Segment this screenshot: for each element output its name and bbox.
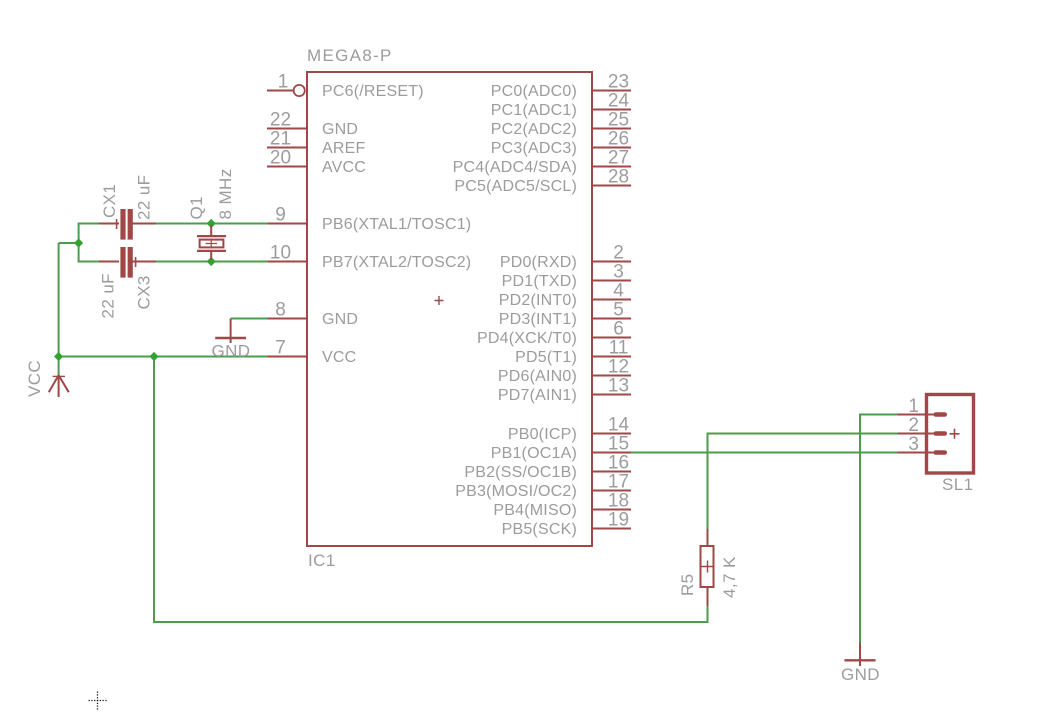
wire XTAL2 junction down <box>78 243 80 263</box>
svg-text:20: 20 <box>270 148 291 169</box>
svg-text:1: 1 <box>908 396 919 417</box>
frame origin marker <box>89 692 108 711</box>
svg-text:CX1: CX1 <box>100 184 119 218</box>
SL1 polarity mark + <box>950 429 960 439</box>
pin 1 PC6(/RESET) <box>267 72 424 101</box>
pin 22 GND <box>267 110 358 139</box>
svg-text:8: 8 <box>275 300 286 321</box>
svg-text:22 uF: 22 uF <box>135 175 154 220</box>
junction VCC rail drop <box>149 352 158 361</box>
svg-text:2: 2 <box>908 415 919 436</box>
pin 16 PB2(SS/OC1B) <box>464 453 631 482</box>
pin 13 PD7(AIN1) <box>498 376 631 405</box>
power VCC symbol <box>25 360 69 397</box>
wire left rail down <box>58 243 60 357</box>
svg-text:1: 1 <box>278 72 289 93</box>
svg-text:GND: GND <box>841 665 880 684</box>
junction VCC left <box>54 352 63 361</box>
wire XTAL2 left of CX3 <box>79 261 100 263</box>
svg-text:PB6(XTAL1/TOSC1): PB6(XTAL1/TOSC1) <box>322 216 471 233</box>
svg-text:13: 13 <box>608 376 629 397</box>
svg-text:PC4(ADC4/SDA): PC4(ADC4/SDA) <box>453 159 577 176</box>
pin 8 GND <box>267 300 358 329</box>
connector SL1 <box>927 395 974 495</box>
svg-text:PD2(INT0): PD2(INT0) <box>499 292 577 309</box>
pin 2 PD0(RXD) <box>500 243 631 272</box>
svg-text:AREF: AREF <box>322 140 365 157</box>
svg-text:VCC: VCC <box>322 349 356 366</box>
svg-text:8 MHz: 8 MHz <box>216 168 235 219</box>
svg-text:3: 3 <box>613 262 624 283</box>
ground GND (SL1) <box>841 643 880 684</box>
wire R5 to SL1 pin2 <box>707 433 898 435</box>
wire pin8 to GND symbol <box>231 318 268 320</box>
svg-text:PD0(RXD): PD0(RXD) <box>500 254 577 271</box>
svg-text:GND: GND <box>322 121 358 138</box>
svg-text:15: 15 <box>608 434 629 455</box>
svg-text:MEGA8-P: MEGA8-P <box>307 46 393 65</box>
pin 6 PD4(XCK/T0) <box>477 319 631 348</box>
svg-text:4,7 K: 4,7 K <box>720 556 739 598</box>
wire XTAL2 cap to pin10 <box>156 261 268 263</box>
pin 11 PD5(T1) <box>515 338 631 367</box>
svg-text:23: 23 <box>608 72 629 93</box>
resistor R5 4,7 K <box>678 529 739 606</box>
svg-text:PD1(TXD): PD1(TXD) <box>502 273 577 290</box>
svg-text:9: 9 <box>275 205 286 226</box>
svg-text:PC3(ADC3): PC3(ADC3) <box>491 140 577 157</box>
wire XTAL1 left of CX1 <box>79 223 100 225</box>
pin 25 PC2(ADC2) <box>491 110 631 139</box>
svg-text:PC5(ADC5/SCL): PC5(ADC5/SCL) <box>454 178 577 195</box>
junction left cap rail <box>74 238 83 247</box>
wire bottom rail <box>154 621 708 623</box>
SL1 pin 2 <box>898 415 948 436</box>
svg-text:PB5(SCK): PB5(SCK) <box>502 521 577 538</box>
pin 12 PD6(AIN0) <box>498 357 631 386</box>
pin 28 PC5(ADC5/SCL) <box>454 167 631 196</box>
pin 27 PC4(ADC4/SDA) <box>453 148 631 177</box>
wire XTAL1 down to junction <box>78 223 80 244</box>
svg-text:25: 25 <box>608 110 629 131</box>
pin 10 PB7(XTAL2/TOSC2) <box>267 243 471 272</box>
svg-text:VCC: VCC <box>25 360 44 397</box>
pin 7 VCC <box>267 338 356 367</box>
svg-text:PB4(MISO): PB4(MISO) <box>493 502 577 519</box>
svg-text:PB3(MOSI/OC2): PB3(MOSI/OC2) <box>455 483 577 500</box>
svg-text:6: 6 <box>613 319 624 340</box>
pin 19 PB5(SCK) <box>502 510 631 539</box>
pin 21 AREF <box>267 129 365 158</box>
wire junction to left rail <box>59 242 79 244</box>
SL1 pin 1 <box>898 396 948 417</box>
svg-text:PC1(ADC1): PC1(ADC1) <box>491 102 577 119</box>
svg-text:PD3(INT1): PD3(INT1) <box>499 311 577 328</box>
IC IC1 MEGA8-P body <box>307 46 592 570</box>
svg-text:PB2(SS/OC1B): PB2(SS/OC1B) <box>464 464 577 481</box>
svg-text:26: 26 <box>608 129 629 150</box>
pin 20 AVCC <box>267 148 366 177</box>
wire SL1 pin1 <box>860 414 898 416</box>
svg-text:PC0(ADC0): PC0(ADC0) <box>491 83 577 100</box>
pin 24 PC1(ADC1) <box>491 91 631 120</box>
pin 3 PD1(TXD) <box>502 262 631 291</box>
svg-text:AVCC: AVCC <box>322 159 366 176</box>
svg-text:GND: GND <box>322 311 358 328</box>
svg-text:7: 7 <box>275 338 286 359</box>
junction Q1 bottom <box>207 257 216 266</box>
pin 23 PC0(ADC0) <box>491 72 631 101</box>
svg-text:3: 3 <box>908 434 919 455</box>
svg-text:Q1: Q1 <box>187 196 206 219</box>
svg-text:10: 10 <box>270 243 291 264</box>
svg-text:24: 24 <box>608 91 630 112</box>
wire R5 bottom <box>707 605 709 623</box>
SL1 pin 3 <box>898 434 948 455</box>
svg-text:27: 27 <box>608 148 629 169</box>
svg-text:22 uF: 22 uF <box>99 273 118 318</box>
svg-text:22: 22 <box>270 110 291 131</box>
pin 18 PB4(MISO) <box>493 491 631 520</box>
ground GND (pin 8) <box>212 319 251 361</box>
wire R5 top up <box>707 434 709 530</box>
capacitor CX3 <box>99 247 157 319</box>
wire VCC rail drop <box>153 357 155 624</box>
pin 5 PD3(INT1) <box>499 300 631 329</box>
svg-text:R5: R5 <box>678 573 697 596</box>
svg-text:5: 5 <box>613 300 624 321</box>
wire XTAL1 cap to pin9 <box>156 223 268 225</box>
svg-text:CX3: CX3 <box>135 275 154 309</box>
pin 15 PB1(OC1A) <box>491 434 631 463</box>
svg-text:4: 4 <box>613 281 624 302</box>
svg-text:PB7(XTAL2/TOSC2): PB7(XTAL2/TOSC2) <box>322 254 471 271</box>
wire VCC stub down <box>58 357 60 376</box>
svg-text:PC6(/RESET): PC6(/RESET) <box>322 83 424 100</box>
svg-text:18: 18 <box>608 491 629 512</box>
svg-text:PD4(XCK/T0): PD4(XCK/T0) <box>477 330 577 347</box>
svg-text:21: 21 <box>270 129 291 150</box>
svg-text:19: 19 <box>608 510 629 531</box>
svg-text:PB0(ICP): PB0(ICP) <box>508 426 577 443</box>
svg-text:16: 16 <box>608 453 629 474</box>
crystal Q1 8 MHz <box>187 168 235 260</box>
wire pin15 to SL1 pin3 <box>631 452 898 454</box>
svg-text:11: 11 <box>609 338 629 359</box>
svg-text:PC2(ADC2): PC2(ADC2) <box>491 121 577 138</box>
svg-text:2: 2 <box>613 243 624 264</box>
svg-text:12: 12 <box>608 357 629 378</box>
capacitor CX1 <box>99 175 156 240</box>
svg-text:IC1: IC1 <box>308 551 336 570</box>
junction Q1 top <box>207 219 216 228</box>
wire VCC rail to pin7 <box>59 356 268 358</box>
svg-text:17: 17 <box>608 472 629 493</box>
pin 9 PB6(XTAL1/TOSC1) <box>267 205 471 234</box>
pin 4 PD2(INT0) <box>499 281 631 310</box>
svg-text:PD7(AIN1): PD7(AIN1) <box>498 387 577 404</box>
pin 26 PC3(ADC3) <box>491 129 631 158</box>
svg-text:PD5(T1): PD5(T1) <box>515 349 577 366</box>
svg-text:PB1(OC1A): PB1(OC1A) <box>491 445 577 462</box>
svg-text:14: 14 <box>608 415 630 436</box>
pin 14 PB0(ICP) <box>508 415 631 444</box>
pin 17 PB3(MOSI/OC2) <box>455 472 631 501</box>
svg-text:SL1: SL1 <box>942 475 973 494</box>
svg-text:28: 28 <box>608 167 629 188</box>
svg-text:GND: GND <box>212 342 251 361</box>
svg-text:PD6(AIN0): PD6(AIN0) <box>498 368 577 385</box>
wire SL1 pin1 down to GND <box>859 414 861 644</box>
